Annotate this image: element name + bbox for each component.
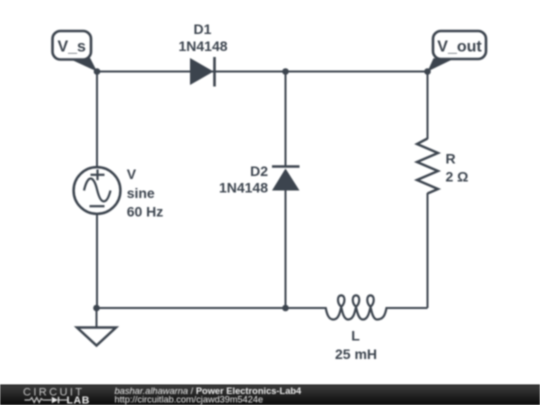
voltage source V (sine 60 Hz) bbox=[74, 166, 164, 219]
svg-text:http://circuitlab.com/cjawd39m: http://circuitlab.com/cjawd39m5424e bbox=[115, 395, 264, 405]
wire left branch from V_s node down to source V bbox=[96, 72, 98, 169]
node junction dot at V_out bbox=[424, 68, 431, 75]
svg-text:D2: D2 bbox=[250, 163, 268, 179]
svg-text:R: R bbox=[446, 150, 456, 166]
footer bar bbox=[0, 385, 540, 405]
svg-text:1N4148: 1N4148 bbox=[178, 38, 227, 54]
footer credit text bbox=[115, 386, 303, 405]
svg-text:sine: sine bbox=[127, 185, 155, 201]
svg-text:LAB: LAB bbox=[67, 394, 90, 405]
node junction dot at D2 top bbox=[282, 68, 289, 75]
wire ground stem bbox=[96, 308, 98, 328]
svg-text:L: L bbox=[351, 328, 360, 344]
wire from resistor R down to bottom right corner bbox=[427, 193, 429, 308]
wire top rail from V_s node to V_out node bbox=[97, 71, 428, 73]
wire bottom rail left segment (inductor to ground node) bbox=[97, 307, 327, 309]
wire bottom rail right segment (corner to inductor) bbox=[386, 307, 428, 309]
wire from V_out node down to resistor R bbox=[427, 72, 429, 140]
resistor R bbox=[417, 139, 468, 194]
svg-text:V: V bbox=[127, 166, 137, 182]
wire D2 branch lower segment bbox=[285, 190, 287, 308]
inductor L bbox=[326, 295, 387, 362]
node junction dot at D2 bottom bbox=[282, 305, 289, 312]
svg-text:D1: D1 bbox=[194, 21, 212, 37]
node junction dot at V_s bbox=[94, 68, 101, 75]
diode D2 bbox=[219, 163, 300, 196]
svg-text:25 mH: 25 mH bbox=[335, 346, 377, 362]
svg-text:V_out: V_out bbox=[437, 38, 482, 55]
svg-text:60 Hz: 60 Hz bbox=[127, 203, 164, 219]
node junction dot at ground bbox=[93, 305, 100, 312]
ground bbox=[77, 328, 116, 346]
node V_out flag bbox=[428, 31, 487, 72]
svg-text:1N4148: 1N4148 bbox=[219, 180, 268, 196]
wire D2 branch upper segment bbox=[285, 72, 287, 167]
svg-text:V_s: V_s bbox=[57, 38, 86, 55]
CircuitLab logo bbox=[23, 386, 90, 405]
node V_s flag bbox=[53, 31, 98, 72]
diode D1 bbox=[178, 21, 227, 87]
wire from source V down to bottom rail bbox=[96, 213, 98, 308]
svg-text:2 Ω: 2 Ω bbox=[446, 169, 469, 185]
